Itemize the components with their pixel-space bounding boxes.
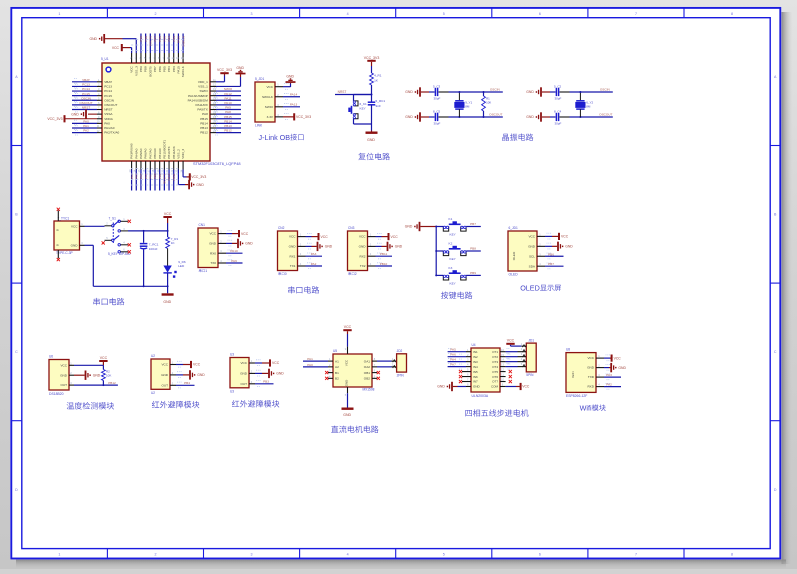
svg-text:6_JD1: 6_JD1 (509, 226, 518, 230)
svg-text:7: 7 (635, 552, 637, 556)
svg-text:RXD: RXD (587, 385, 594, 389)
svg-text:GND: GND (89, 37, 97, 41)
svg-text:PB9: PB9 (470, 271, 476, 275)
svg-text:A2: A2 (335, 365, 339, 369)
svg-text:K1: K1 (449, 217, 453, 221)
svg-text:PA15: PA15 (177, 66, 181, 74)
svg-text:GND: GND (93, 373, 101, 377)
svg-text:RX2: RX2 (359, 254, 365, 258)
svg-text:PA9: PA9 (231, 259, 237, 263)
svg-text:VCC_3V3: VCC_3V3 (217, 68, 232, 72)
svg-text:GND: GND (405, 90, 413, 94)
svg-text:GND: GND (367, 138, 375, 142)
svg-text:2: 2 (154, 12, 156, 16)
svg-text:VCC: VCC (345, 360, 349, 366)
svg-text:KEY: KEY (450, 282, 456, 286)
svg-text:PB4: PB4 (167, 36, 171, 42)
svg-text:GND: GND (236, 66, 244, 70)
svg-text:GND: GND (565, 245, 573, 249)
svg-text:2: 2 (154, 552, 156, 556)
svg-text:PB4: PB4 (167, 66, 171, 72)
svg-text:PC15: PC15 (104, 94, 112, 98)
svg-text:PA4: PA4 (450, 358, 456, 362)
svg-text:STM32F103C8T6_LQFP48: STM32F103C8T6_LQFP48 (193, 161, 241, 166)
svg-text:VCC: VCC (209, 232, 216, 236)
svg-text:MX1508: MX1508 (363, 388, 375, 392)
svg-text:PB15: PB15 (200, 117, 208, 121)
svg-text:PB6: PB6 (158, 36, 162, 42)
svg-text:3: 3 (251, 12, 253, 16)
svg-text:U6: U6 (49, 355, 53, 359)
svg-text:PC14: PC14 (104, 89, 112, 93)
svg-text:PB9: PB9 (139, 36, 143, 42)
svg-text:PB7: PB7 (153, 66, 157, 72)
svg-text:PB10: PB10 (380, 262, 388, 266)
svg-text:CN2: CN2 (278, 226, 285, 230)
svg-text:OT1: OT1 (492, 350, 498, 354)
svg-text:U4: U4 (472, 343, 476, 347)
svg-text:IN6: IN6 (473, 375, 478, 379)
svg-text:PA3: PA3 (606, 373, 612, 377)
svg-text:B2: B2 (335, 377, 339, 381)
svg-text:PA6: PA6 (450, 353, 456, 357)
svg-text:VCC: VCC (161, 363, 168, 367)
svg-text:IN5: IN5 (473, 370, 478, 374)
svg-text:OT2: OT2 (492, 355, 498, 359)
svg-text:ESP8266-12F: ESP8266-12F (566, 394, 587, 398)
svg-text:GND: GND (197, 373, 205, 377)
svg-text:PB3: PB3 (172, 36, 176, 42)
svg-text:1: 1 (205, 269, 207, 273)
svg-text:5_RC1: 5_RC1 (376, 99, 386, 103)
svg-text:CN1: CN1 (199, 223, 206, 227)
svg-text:PA11/RX: PA11/RX (196, 103, 208, 107)
svg-text:COM: COM (491, 385, 499, 389)
svg-text:NRST: NRST (104, 108, 113, 112)
svg-text:TXD: TXD (588, 375, 595, 379)
svg-text:GND: GND (473, 385, 481, 389)
svg-text:PB3: PB3 (172, 66, 176, 72)
svg-text:B: B (56, 229, 60, 231)
svg-text:RX0: RX0 (210, 251, 216, 255)
svg-text:PA9: PA9 (225, 106, 231, 110)
svg-text:OLED: OLED (509, 272, 519, 276)
svg-text:LINK: LINK (255, 124, 263, 128)
svg-text:OLED: OLED (520, 283, 540, 292)
svg-text:8_C5: 8_C5 (433, 109, 441, 113)
svg-text:PC13: PC13 (82, 83, 90, 87)
svg-text:8M: 8M (586, 105, 591, 109)
svg-text:DS18B20: DS18B20 (49, 392, 64, 396)
svg-text:VCC: VCC (71, 224, 78, 228)
svg-text:GND: GND (526, 90, 534, 94)
svg-text:VBAT: VBAT (82, 78, 90, 82)
svg-text:VCC: VCC (112, 46, 120, 50)
svg-text:VCC_3V3: VCC_3V3 (47, 117, 62, 121)
svg-text:PA5: PA5 (450, 348, 456, 352)
svg-text:VCC: VCC (241, 232, 249, 236)
svg-text:6_K1: 6_K1 (360, 102, 368, 106)
svg-text:PB15: PB15 (224, 115, 232, 119)
svg-text:5_C2: 5_C2 (554, 84, 562, 88)
svg-text:OA1: OA1 (364, 359, 370, 363)
svg-text:VCC: VCC (587, 356, 594, 360)
svg-text:1: 1 (58, 12, 60, 16)
svg-text:GND: GND (405, 115, 413, 119)
svg-text:OSCIN: OSCIN (600, 88, 610, 92)
svg-text:PA7: PA7 (450, 363, 456, 367)
svg-text:PA1: PA1 (307, 357, 313, 361)
svg-text:PB12: PB12 (200, 131, 208, 135)
svg-text:TX1: TX1 (290, 264, 296, 268)
svg-text:PB7: PB7 (548, 262, 554, 266)
svg-text:7_RC1: 7_RC1 (149, 242, 159, 246)
svg-text:PA2/TX/A0: PA2/TX/A0 (104, 131, 119, 135)
svg-text:D: D (774, 488, 777, 492)
svg-text:PB8: PB8 (144, 36, 148, 42)
svg-text:PB13: PB13 (224, 124, 232, 128)
svg-text:5_C3: 5_C3 (433, 84, 441, 88)
svg-text:VSS_1: VSS_1 (198, 85, 208, 89)
svg-text:PB8: PB8 (144, 66, 148, 72)
svg-text:VCC_3V3: VCC_3V3 (364, 56, 380, 60)
svg-text:VCC: VCC (321, 235, 329, 239)
svg-text:PB13: PB13 (200, 126, 208, 130)
svg-text:SWIO: SWIO (224, 87, 233, 91)
svg-text:PB5: PB5 (163, 36, 167, 42)
svg-text:VBAT: VBAT (104, 80, 112, 84)
svg-text:10K: 10K (106, 374, 111, 378)
svg-text:PA10: PA10 (230, 249, 238, 253)
svg-text:OT3: OT3 (492, 360, 498, 364)
svg-text:U5: U5 (333, 349, 337, 353)
svg-text:PA13/USB/DP: PA13/USB/DP (188, 94, 208, 98)
svg-text:PB7: PB7 (153, 36, 157, 42)
svg-text:JD2: JD2 (397, 349, 403, 353)
svg-text:GND: GND (276, 372, 284, 376)
svg-text:ULN2003A: ULN2003A (472, 394, 489, 398)
svg-text:2: 2 (355, 272, 357, 276)
svg-text:OSCOUT: OSCOUT (489, 113, 502, 117)
svg-text:5_JD1: 5_JD1 (255, 77, 264, 81)
svg-text:PB1/A0: PB1/A0 (158, 148, 162, 159)
svg-text:SWIO: SWIO (200, 89, 209, 93)
svg-text:U8: U8 (566, 348, 570, 352)
svg-text:PA14/USB/DM: PA14/USB/DM (188, 98, 209, 102)
svg-text:PB14: PB14 (200, 121, 208, 125)
svg-text:PA0: PA0 (104, 121, 110, 125)
svg-text:PA9/TX: PA9/TX (197, 108, 207, 112)
svg-text:VCC: VCC (614, 356, 622, 360)
svg-text:BOOT1: BOOT1 (163, 173, 167, 184)
svg-text:GND: GND (437, 385, 445, 389)
svg-text:PB14: PB14 (224, 119, 232, 123)
svg-text:LED: LED (178, 264, 185, 268)
svg-text:PB11: PB11 (380, 252, 388, 256)
svg-text:8: 8 (731, 12, 733, 16)
svg-text:BOOT0: BOOT0 (149, 36, 153, 47)
svg-text:GND: GND (345, 380, 349, 386)
svg-text:7: 7 (635, 12, 637, 16)
svg-text:OB1: OB1 (364, 371, 370, 375)
svg-text:U3: U3 (230, 390, 234, 394)
svg-text:VCC: VCC (391, 235, 399, 239)
svg-text:PB6: PB6 (548, 252, 554, 256)
svg-text:IN2: IN2 (473, 355, 478, 359)
svg-text:VCC_3V3: VCC_3V3 (296, 115, 311, 119)
svg-text:GND: GND (325, 245, 333, 249)
svg-text:0: 0 (285, 272, 287, 276)
svg-text:PB0/A0: PB0/A0 (153, 148, 157, 159)
svg-text:5PIN: 5PIN (526, 373, 534, 377)
svg-text:GND: GND (209, 242, 217, 246)
svg-text:PB12: PB12 (108, 381, 116, 385)
svg-text:PB10/BOOT1: PB10/BOOT1 (162, 140, 166, 159)
svg-text:8M: 8M (465, 105, 470, 109)
svg-text:30pF: 30pF (555, 97, 562, 101)
svg-text:PA6/A0: PA6/A0 (144, 148, 148, 159)
svg-text:10K: 10K (486, 100, 491, 104)
svg-text:OB2: OB2 (364, 377, 370, 381)
svg-text:OSCOUT: OSCOUT (104, 103, 117, 107)
svg-text:GND: GND (71, 243, 79, 247)
svg-text:9_D6: 9_D6 (178, 260, 186, 264)
svg-text:PB11/RX: PB11/RX (172, 146, 176, 159)
svg-text:PA3: PA3 (311, 252, 317, 256)
svg-text:6: 6 (539, 12, 541, 16)
svg-text:SDA: SDA (529, 264, 536, 268)
svg-text:OT4: OT4 (492, 365, 498, 369)
svg-text:U2: U2 (151, 391, 155, 395)
svg-text:IN7: IN7 (473, 380, 478, 384)
svg-text:PA12: PA12 (224, 92, 232, 96)
svg-text:5: 5 (443, 12, 445, 16)
svg-text:PB8: PB8 (470, 247, 476, 251)
svg-text:GND: GND (395, 245, 403, 249)
svg-text:OT5: OT5 (492, 370, 498, 374)
svg-text:C: C (15, 350, 18, 354)
svg-text:RX1: RX1 (289, 254, 295, 258)
svg-text:VSSA: VSSA (104, 112, 113, 116)
svg-text:VCC: VCC (359, 235, 366, 239)
svg-text:PA8: PA8 (225, 110, 231, 114)
svg-text:IN3: IN3 (473, 360, 478, 364)
svg-text:VCC: VCC (289, 235, 296, 239)
svg-text:OSCIN: OSCIN (81, 96, 91, 100)
svg-text:D: D (15, 488, 18, 492)
svg-text:5: 5 (443, 552, 445, 556)
svg-text:NRST: NRST (82, 106, 91, 110)
svg-text:PC15: PC15 (82, 92, 90, 96)
svg-text:TX2: TX2 (360, 264, 366, 268)
svg-text:TX0: TX0 (210, 261, 216, 265)
svg-text:A1: A1 (335, 359, 339, 363)
svg-text:VCC: VCC (130, 65, 134, 72)
svg-text:4: 4 (347, 552, 349, 556)
svg-text:GND: GND (163, 300, 171, 304)
svg-text:PB12: PB12 (224, 129, 232, 133)
svg-text:GND: GND (240, 372, 248, 376)
svg-text:GND: GND (196, 183, 204, 187)
svg-text:VCC: VCC (240, 361, 247, 365)
svg-text:PA1/A0: PA1/A0 (104, 126, 115, 130)
svg-text:VCC: VCC (193, 363, 201, 367)
svg-text:PA2: PA2 (606, 382, 612, 386)
svg-text:PB10/TX: PB10/TX (167, 146, 171, 158)
svg-text:3.3V: 3.3V (267, 115, 274, 119)
svg-text:PA11: PA11 (224, 96, 231, 100)
svg-text:PA0: PA0 (83, 119, 89, 123)
svg-text:PA13: PA13 (290, 103, 298, 107)
svg-text:GND: GND (526, 115, 534, 119)
svg-text:GND: GND (161, 373, 169, 377)
svg-text:VSS_2: VSS_2 (177, 149, 181, 159)
svg-text:5_U1: 5_U1 (101, 57, 109, 61)
svg-text:CN3: CN3 (348, 226, 355, 230)
svg-text:4: 4 (347, 12, 349, 16)
svg-text:9nF: 9nF (376, 104, 381, 108)
svg-text:SCL: SCL (529, 254, 535, 258)
svg-text:6: 6 (539, 552, 541, 556)
svg-text:WiFi: WiFi (571, 371, 575, 377)
svg-text:GND: GND (286, 74, 294, 78)
svg-text:KEY: KEY (450, 233, 456, 237)
svg-text:OSCOUT: OSCOUT (599, 113, 612, 117)
svg-text:JD1: JD1 (528, 339, 534, 343)
svg-text:KEY: KEY (450, 257, 456, 261)
svg-text:VDD_2: VDD_2 (181, 149, 185, 159)
svg-text:PA10: PA10 (224, 101, 232, 105)
svg-text:PA2: PA2 (83, 129, 89, 133)
svg-text:PB4: PB4 (184, 381, 190, 385)
svg-text:B: B (56, 244, 60, 246)
svg-text:Wifi: Wifi (580, 403, 592, 412)
svg-text:7_TYC1: 7_TYC1 (58, 216, 70, 220)
svg-text:GND: GND (618, 366, 626, 370)
svg-text:VSS_3: VSS_3 (134, 66, 138, 76)
svg-text:OUT: OUT (240, 382, 247, 386)
svg-text:PB9: PB9 (139, 66, 143, 72)
svg-text:GND: GND (587, 366, 595, 370)
svg-text:IN4: IN4 (473, 365, 478, 369)
svg-text:VCC: VCC (100, 356, 108, 360)
svg-text:30pF: 30pF (434, 122, 441, 126)
svg-text:B1: B1 (335, 371, 339, 375)
svg-text:KEY: KEY (360, 107, 366, 111)
svg-text:U2: U2 (151, 354, 155, 358)
svg-text:8: 8 (731, 552, 733, 556)
svg-text:VCC: VCC (561, 235, 569, 239)
svg-text:VDDA: VDDA (104, 117, 114, 121)
svg-text:J-Link OB: J-Link OB (259, 133, 291, 142)
svg-text:PB6: PB6 (158, 66, 162, 72)
svg-text:VCC: VCC (507, 339, 515, 343)
svg-text:30pF: 30pF (555, 122, 562, 126)
svg-text:OA2: OA2 (364, 365, 370, 369)
svg-text:PA3/RX/A0: PA3/RX/A0 (130, 143, 134, 159)
svg-text:PA1: PA1 (83, 124, 89, 128)
svg-text:NRST: NRST (338, 90, 347, 94)
svg-text:GND: GND (528, 244, 536, 248)
svg-text:VDD_1: VDD_1 (198, 80, 208, 84)
svg-text:PA5/A0: PA5/A0 (139, 148, 143, 159)
svg-text:2PIN: 2PIN (397, 373, 405, 377)
svg-text:PB5: PB5 (162, 66, 166, 72)
svg-text:IN1: IN1 (473, 350, 478, 354)
svg-text:VCC: VCC (60, 363, 67, 367)
svg-text:GND: GND (359, 245, 367, 249)
svg-text:BOOT0: BOOT0 (148, 66, 152, 77)
svg-text:GND: GND (405, 225, 413, 229)
svg-text:VCC: VCC (272, 361, 280, 365)
svg-text:OUT: OUT (161, 383, 168, 387)
svg-text:OSCIN: OSCIN (490, 88, 500, 92)
svg-text:PA8: PA8 (202, 112, 208, 116)
svg-text:VCC: VCC (344, 325, 352, 329)
svg-text:SWIO: SWIO (265, 105, 274, 109)
svg-text:VCC: VCC (266, 85, 273, 89)
svg-text:30pF: 30pF (434, 97, 441, 101)
svg-text:PC14: PC14 (82, 87, 90, 91)
svg-text:GND: GND (245, 242, 253, 246)
svg-text:PB7: PB7 (470, 222, 476, 226)
svg-text:OT7: OT7 (492, 380, 498, 384)
svg-text:OSCIN: OSCIN (104, 98, 114, 102)
svg-text:VCC: VCC (528, 235, 535, 239)
svg-text:7_S1: 7_S1 (109, 216, 117, 220)
svg-text:4_R1: 4_R1 (374, 74, 382, 78)
svg-text:SWCLK: SWCLK (181, 65, 185, 77)
svg-text:PA2: PA2 (311, 262, 317, 266)
svg-text:K3: K3 (449, 266, 453, 270)
svg-text:PB3: PB3 (263, 380, 269, 384)
svg-text:U3: U3 (230, 353, 234, 357)
svg-text:SWCLK: SWCLK (262, 95, 274, 99)
svg-text:3: 3 (251, 552, 253, 556)
svg-text:OUT: OUT (60, 383, 67, 387)
svg-text:7_R1: 7_R1 (171, 237, 179, 241)
svg-text:OLED: OLED (512, 251, 516, 260)
svg-text:OSCOUT: OSCOUT (79, 101, 92, 105)
svg-text:C: C (774, 350, 777, 354)
svg-text:GND: GND (60, 373, 68, 377)
svg-text:OT6: OT6 (492, 375, 498, 379)
svg-text:PC13: PC13 (104, 85, 112, 89)
svg-text:GND: GND (343, 413, 351, 417)
svg-text:VCC: VCC (164, 212, 172, 216)
svg-text:GND: GND (71, 112, 79, 116)
svg-text:PA4/A0: PA4/A0 (134, 148, 138, 159)
svg-text:GND: GND (289, 245, 297, 249)
svg-text:PA7/A0: PA7/A0 (148, 148, 152, 159)
svg-text:VCC: VCC (522, 385, 530, 389)
svg-text:100nF: 100nF (149, 247, 158, 251)
svg-text:PA0: PA0 (307, 363, 313, 367)
svg-text:K2: K2 (449, 241, 453, 245)
svg-text:PA14: PA14 (290, 93, 298, 97)
svg-text:VCC_3V3: VCC_3V3 (191, 175, 206, 179)
svg-text:8_C4: 8_C4 (554, 109, 562, 113)
svg-text:1: 1 (58, 552, 60, 556)
